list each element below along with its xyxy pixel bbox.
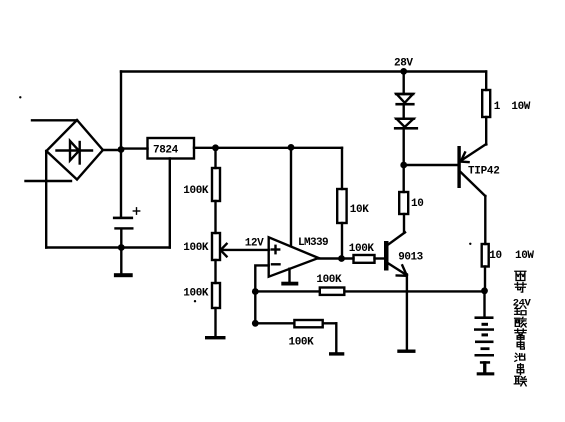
wire 9013 emitter to ground — [406, 275, 408, 350]
label Chinese vertical note: two 24V lead-acid batteries in series — [513, 271, 532, 386]
battery B1 plates — [474, 316, 494, 375]
resistor R8 10 10W body — [482, 244, 489, 267]
ground below R10 — [329, 352, 344, 355]
wire bridge negative corner down — [45, 151, 47, 248]
node TIP42 base junction — [400, 162, 407, 169]
AC input line bottom — [26, 180, 72, 182]
svg-text:100K: 100K — [183, 242, 209, 254]
diode D1 cathode bar — [395, 103, 414, 106]
wire D1 to D2 — [403, 105, 405, 119]
op-amp U1 LM339 triangle — [269, 237, 319, 276]
wire base node to TIP42 — [404, 164, 458, 166]
transistor Q2 emitter arrowhead — [461, 160, 469, 163]
wire R1 to pot — [214, 201, 216, 233]
node 28V rail junction — [400, 68, 407, 75]
resistor R7 1 10W body — [482, 90, 490, 117]
wire rail to diode D1 — [403, 71, 405, 94]
wire minus input — [255, 265, 268, 323]
bridge rectifier diamond — [46, 120, 103, 180]
svg-text:LM339: LM339 — [298, 237, 328, 249]
wire R8 to battery node — [484, 267, 486, 291]
svg-text:9013: 9013 — [398, 251, 423, 263]
wire corner down to 10K — [341, 148, 343, 189]
char chi — [515, 353, 525, 361]
bridge inner diode line — [57, 149, 93, 151]
stray dot 3 — [469, 243, 471, 245]
wire top rail right corner down — [485, 72, 487, 91]
node capacitor negative junction — [118, 244, 125, 251]
wire left vertical from rail to bridge output — [120, 72, 122, 218]
transistor Q1 emitter arrowhead — [397, 274, 407, 277]
stray dot 1 — [19, 96, 21, 98]
node bridge output junction — [118, 146, 125, 153]
svg-text:100K: 100K — [183, 185, 209, 197]
stray dot 2 — [194, 300, 196, 302]
svg-text:100K: 100K — [316, 274, 342, 286]
wire 7824 input — [121, 147, 148, 149]
resistor R6 10 body — [399, 192, 408, 214]
transistor Q1 collector line — [389, 232, 406, 244]
char jie — [515, 282, 526, 292]
capacitor C1 plus sign — [133, 208, 139, 214]
svg-text:12V: 12V — [245, 237, 264, 249]
wire R3 to ground — [214, 308, 216, 336]
bridge inner diode cathode bar — [78, 142, 80, 164]
wire capacitor bottom to rail — [120, 230, 122, 248]
char xu — [515, 329, 526, 339]
svg-text:10: 10 — [411, 198, 423, 210]
wire 7824 ground pin — [169, 159, 171, 248]
diode D2 triangle — [397, 119, 414, 127]
wire 10K bottom to output node — [341, 223, 343, 259]
op-amp ground pin — [288, 269, 290, 282]
svg-text:28V: 28V — [394, 58, 413, 70]
node output junction — [338, 255, 345, 262]
svg-text:TIP42: TIP42 — [468, 166, 500, 178]
node feedback junction — [252, 288, 259, 295]
char qian — [515, 306, 526, 315]
wire feedback line — [255, 290, 484, 292]
ground below capacitor — [120, 248, 122, 274]
transistor Q1 emitter line — [389, 264, 407, 276]
wire bridge right corner to rail — [103, 149, 121, 151]
resistor R1 100K body — [212, 168, 220, 201]
capacitor C1 top plate — [113, 217, 133, 220]
svg-text:7824: 7824 — [153, 145, 179, 157]
ground below 9013 — [397, 350, 415, 353]
wire R10 right end down — [335, 323, 337, 352]
transistor Q2 collector line — [461, 172, 486, 196]
potentiometer RP 100K body — [212, 233, 220, 260]
wire bottom-left ground rail — [46, 246, 170, 248]
svg-text:10K: 10K — [350, 204, 369, 216]
resistor R3 100K body — [212, 283, 220, 308]
diode D2 anode line — [396, 117, 414, 119]
svg-text:10: 10 — [489, 250, 501, 262]
svg-text:100K: 100K — [289, 337, 315, 349]
wire lower 100K line — [255, 322, 336, 324]
wire base node down to 10R — [403, 165, 405, 192]
op-amp plus input symbol — [272, 248, 279, 250]
node battery positive junction — [481, 287, 488, 294]
op-amp minus input symbol — [272, 263, 280, 265]
transistor Q2 emitter line — [461, 144, 486, 161]
diode D1 triangle — [397, 94, 414, 103]
wire pot to R3 — [214, 260, 216, 283]
node op-amp supply junction — [288, 144, 295, 151]
wire TIP42 emitter up to 1R — [485, 117, 487, 145]
wire battery lead — [483, 291, 485, 317]
wire TIP42 collector down — [484, 196, 486, 244]
resistor R4 10K body — [337, 189, 346, 223]
ground below divider — [205, 336, 226, 339]
wire 7824 output run to 10K corner — [194, 147, 342, 149]
wire op-amp V+ vertical — [290, 147, 292, 246]
capacitor C1 bottom plate — [114, 227, 133, 229]
resistor R5 100K body (output) — [354, 255, 375, 263]
resistor R9 100K body (feedback) — [320, 288, 345, 295]
svg-text:100K: 100K — [183, 288, 209, 300]
wire D2 to base node — [403, 130, 405, 166]
char suan — [515, 317, 527, 327]
resistor R10 100K body (to ground) — [294, 320, 322, 327]
char chuan — [517, 364, 524, 375]
wire R5 to 9013 base — [375, 257, 385, 259]
wire top 28V rail — [121, 70, 486, 72]
svg-text:100K: 100K — [349, 243, 375, 255]
char liang — [515, 271, 526, 280]
node divider top junction — [212, 144, 219, 151]
transistor Q2 TIP42 base bar — [457, 146, 460, 188]
wire op-amp output — [319, 257, 354, 259]
transistor Q1 9013 base bar — [384, 241, 389, 271]
AC input line top — [32, 119, 77, 121]
wire divider top lead — [214, 148, 216, 168]
char dian — [517, 341, 524, 349]
regulator U2 7824 box — [148, 138, 195, 159]
diode D1 anode line — [396, 93, 413, 95]
node lower 100K junction — [252, 320, 259, 327]
wire 9013 collector up to 10R — [403, 214, 405, 233]
bridge inner diode triangle — [70, 141, 79, 161]
svg-text:1: 1 — [494, 101, 501, 113]
svg-text:10W: 10W — [511, 101, 530, 113]
svg-text:10W: 10W — [515, 250, 534, 262]
char lian — [514, 376, 526, 386]
pot wiper arrow — [221, 249, 270, 251]
diode D2 cathode bar — [394, 127, 418, 130]
